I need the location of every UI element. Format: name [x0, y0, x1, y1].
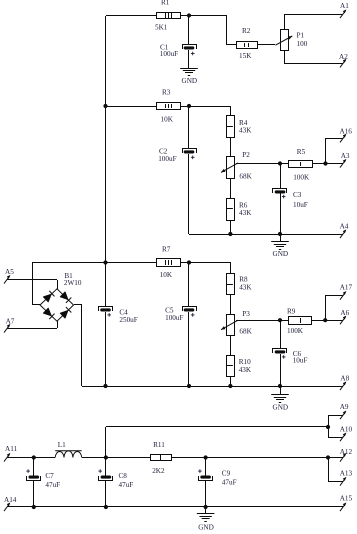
wire top of section 3 [33, 262, 157, 264]
wire R4 to P2 [230, 138, 232, 157]
capacitor C9 [198, 469, 212, 480]
junction R7-C5 [187, 260, 191, 264]
wire R6 down [230, 220, 232, 234]
wire A11 to L1 [7, 457, 55, 459]
resistor R6 [227, 199, 235, 221]
capacitor C1 [183, 45, 197, 56]
resistor R11 [151, 455, 172, 461]
ground GND4 [197, 514, 215, 522]
wire R8 to P3 [230, 295, 232, 314]
wire supply rail [105, 16, 107, 263]
svg-text:C9: C9 [222, 469, 231, 477]
svg-text:100uF: 100uF [160, 50, 178, 58]
svg-text:A14: A14 [4, 496, 17, 504]
terminal A4 [340, 229, 346, 238]
resistor R10 [227, 356, 235, 377]
svg-text:GND: GND [182, 77, 198, 85]
svg-text:A10: A10 [340, 425, 353, 433]
wire R1 to corner [180, 15, 227, 17]
junction rail-C4 [103, 260, 107, 264]
wire C6 down [280, 354, 282, 386]
wire to R2 [227, 44, 236, 46]
svg-text:C8: C8 [119, 472, 128, 480]
svg-text:A15: A15 [340, 495, 353, 503]
wire to C7 [33, 458, 35, 476]
svg-text:A6: A6 [340, 309, 349, 317]
resistor R3 [157, 103, 181, 110]
potentiometer P3 [221, 315, 238, 336]
wire to A10 [328, 437, 343, 439]
junction node R3-C2 [187, 104, 191, 108]
resistor R5 [289, 161, 313, 168]
terminal A14 [4, 502, 10, 511]
wire up to rail [32, 262, 34, 305]
wire to A17 [325, 295, 343, 297]
svg-text:2W10: 2W10 [64, 279, 82, 287]
terminal A7 [4, 324, 10, 333]
wire rail to C4 [105, 262, 107, 306]
terminal A2 [340, 59, 346, 68]
svg-text:P2: P2 [242, 151, 250, 159]
wire bypass to A9 A10 [106, 426, 328, 428]
svg-text:A8: A8 [340, 375, 349, 383]
wire A9-A10 stub [328, 415, 330, 437]
ground GND3 [271, 395, 289, 403]
wire R3 to corner [180, 106, 230, 108]
wire to A6 [325, 320, 343, 322]
junction C3-ground rail [278, 232, 282, 236]
svg-text:100uF: 100uF [165, 314, 183, 322]
wire bottom rail [7, 506, 343, 508]
terminal A13 [340, 477, 346, 486]
wire down to A13 [328, 458, 330, 482]
wire node up [105, 427, 107, 458]
svg-text:10K: 10K [161, 115, 174, 123]
wire R2 to P1 wiper [258, 44, 275, 46]
wire to bridge top [57, 280, 59, 289]
wire R11 to A12 [172, 457, 343, 459]
wire A7 input [7, 328, 57, 330]
terminal A10 [340, 433, 346, 442]
junction A12-A13 [326, 455, 330, 459]
svg-text:A16: A16 [340, 127, 353, 135]
svg-text:250uF: 250uF [119, 316, 137, 324]
wire to ground symbol [280, 234, 282, 242]
terminal A17 [340, 291, 346, 300]
wire C9 down [205, 480, 207, 507]
svg-text:47uF: 47uF [222, 478, 237, 486]
svg-text:GND: GND [273, 403, 289, 411]
junction wiper-C3 [278, 161, 282, 165]
wire to A1 [284, 14, 343, 16]
wire P1 bottom [284, 50, 286, 63]
svg-text:100K: 100K [293, 174, 310, 182]
resistor R4 [227, 116, 235, 138]
ground GND1 [180, 69, 198, 76]
wire to A16 [326, 138, 343, 140]
wire node to C1 [188, 16, 190, 45]
junction R6-ground rail [228, 232, 232, 236]
svg-text:R2: R2 [242, 27, 251, 35]
capacitor C5 [183, 307, 197, 317]
wire R5 right [312, 163, 326, 165]
terminal A8 [340, 381, 346, 390]
svg-text:R5: R5 [297, 148, 306, 156]
terminal A15 [340, 502, 346, 511]
svg-text:43K: 43K [239, 284, 252, 292]
wire to A13 [328, 481, 343, 483]
capacitor C8 [98, 469, 112, 480]
svg-text:P3: P3 [242, 310, 250, 318]
svg-text:A13: A13 [340, 469, 353, 477]
terminal A3 [340, 159, 346, 168]
svg-text:L1: L1 [58, 441, 66, 449]
wire P2 wiper to R5 [236, 163, 289, 165]
svg-text:43K: 43K [239, 127, 252, 135]
svg-text:100K: 100K [287, 327, 304, 335]
wire C8 down [105, 480, 107, 507]
wire C3 down [280, 193, 282, 234]
svg-text:100: 100 [297, 40, 308, 48]
junction C7-bottom rail [32, 505, 36, 509]
svg-text:A2: A2 [339, 53, 348, 61]
junction C5-ground rail [187, 384, 191, 388]
capacitor C4 [99, 307, 113, 317]
wire up to A17 [325, 296, 327, 320]
capacitor C7 [26, 469, 40, 480]
resistor R1 [157, 13, 181, 19]
wire rail to R3 [106, 106, 157, 108]
svg-text:A5: A5 [5, 268, 14, 276]
wire to C3 [280, 164, 282, 188]
svg-text:10uF: 10uF [293, 357, 308, 365]
svg-text:R8: R8 [239, 276, 248, 284]
wire to A2 [284, 63, 343, 65]
svg-text:47uF: 47uF [45, 481, 60, 489]
resistor R8 [227, 274, 235, 295]
junction A17-A6 [323, 318, 327, 322]
resistor R2 [237, 42, 258, 49]
svg-text:R6: R6 [239, 201, 248, 209]
svg-text:2K2: 2K2 [152, 467, 165, 475]
terminal A9 [340, 411, 346, 420]
wire L1 to R11 [82, 457, 150, 459]
junction C9-bottom rail [204, 505, 208, 509]
svg-text:GND: GND [198, 524, 214, 532]
wire down to R2 [226, 16, 228, 45]
svg-text:A4: A4 [340, 222, 349, 230]
svg-text:A7: A7 [6, 318, 15, 326]
potentiometer P2 [221, 157, 238, 179]
svg-text:A12: A12 [340, 448, 353, 456]
svg-text:R10: R10 [239, 358, 251, 366]
wire C2 down [188, 154, 190, 234]
junction C8-bottom rail [104, 505, 108, 509]
svg-text:P1: P1 [297, 32, 305, 40]
svg-text:15K: 15K [239, 52, 252, 60]
junction A9-A10 [326, 425, 330, 429]
terminal A16 [340, 134, 346, 143]
junction node R1-C1 [187, 13, 191, 17]
wire to A9 [328, 415, 343, 417]
wire bridge bottom [57, 321, 59, 328]
wire bridge left out [33, 304, 40, 306]
junction R11-C9 [204, 455, 208, 459]
capacitor C3 [273, 189, 287, 199]
wire P1 top [284, 14, 286, 30]
svg-text:68K: 68K [239, 173, 252, 181]
terminal A11 [4, 453, 10, 462]
terminal A12 [340, 453, 346, 462]
wire node to C5 [188, 262, 190, 306]
capacitor C6 [273, 349, 287, 359]
wire R10 down [230, 376, 232, 386]
wire P3 to R10 [230, 335, 232, 356]
svg-text:43K: 43K [239, 209, 252, 217]
ground GND2 [271, 242, 289, 250]
wire C7 down [33, 480, 35, 507]
svg-text:R9: R9 [287, 307, 296, 315]
wire P3 wiper to R9 [236, 320, 289, 322]
wire C5 down [188, 312, 190, 386]
wire rail to R1 [106, 15, 157, 17]
wire R7 to corner [180, 262, 230, 264]
svg-text:100uF: 100uF [158, 155, 176, 163]
wire bridge right out [74, 304, 82, 306]
wire down to R4 [230, 106, 232, 115]
svg-text:A1: A1 [340, 2, 349, 10]
wire to A3 [326, 163, 343, 165]
svg-text:C7: C7 [45, 472, 54, 480]
wire P2 to R6 [230, 178, 232, 198]
junction L1-C8 [104, 455, 108, 459]
wire C1 to ground [188, 50, 190, 68]
bridge rectifier B1 [40, 289, 74, 321]
svg-text:R11: R11 [153, 441, 165, 449]
wire node to C2 [188, 106, 190, 149]
wire down to ground rail [81, 305, 83, 386]
junction A11-C7 [32, 455, 36, 459]
wire to ground symbol [205, 507, 207, 514]
svg-text:10uF: 10uF [293, 201, 308, 209]
wire to C6 [280, 320, 282, 348]
svg-text:68K: 68K [239, 327, 252, 335]
wire to ground symbol [280, 386, 282, 395]
svg-text:R3: R3 [162, 88, 171, 96]
svg-text:47uF: 47uF [119, 481, 134, 489]
junction C4-ground rail [103, 384, 107, 388]
wire to C9 [205, 458, 207, 476]
junction A16-A3 [323, 161, 327, 165]
wire up to A16 [325, 138, 327, 164]
junction C6-ground rail [278, 384, 282, 388]
potentiometer P1 [275, 30, 292, 51]
svg-text:GND: GND [273, 250, 289, 258]
svg-text:A11: A11 [5, 445, 18, 453]
capacitor C2 [183, 149, 197, 160]
resistor R7 [157, 259, 181, 267]
svg-text:A9: A9 [340, 403, 349, 411]
svg-text:C3: C3 [293, 191, 302, 199]
junction R10-ground rail [228, 384, 232, 388]
wire A5 input [7, 279, 57, 281]
terminal A5 [4, 275, 10, 284]
svg-text:R7: R7 [162, 245, 171, 253]
svg-text:R1: R1 [161, 0, 170, 7]
svg-text:10K: 10K [160, 271, 173, 279]
wire section3 ground rail [82, 386, 343, 388]
inductor L1 [55, 451, 81, 458]
terminal A6 [340, 316, 346, 325]
junction rail-R3 [103, 104, 107, 108]
junction wiper-C6 [278, 318, 282, 322]
wire R9 right [312, 320, 325, 322]
wire section2 ground rail [189, 234, 343, 236]
svg-text:A3: A3 [341, 152, 350, 160]
svg-text:A17: A17 [340, 283, 353, 291]
terminal A1 [340, 9, 346, 18]
resistor R9 [289, 317, 312, 325]
svg-text:43K: 43K [239, 366, 252, 374]
wire C4 down [105, 312, 107, 386]
wire down to R8 [230, 262, 232, 274]
svg-text:5K1: 5K1 [155, 24, 168, 32]
wire to C8 [105, 458, 107, 476]
